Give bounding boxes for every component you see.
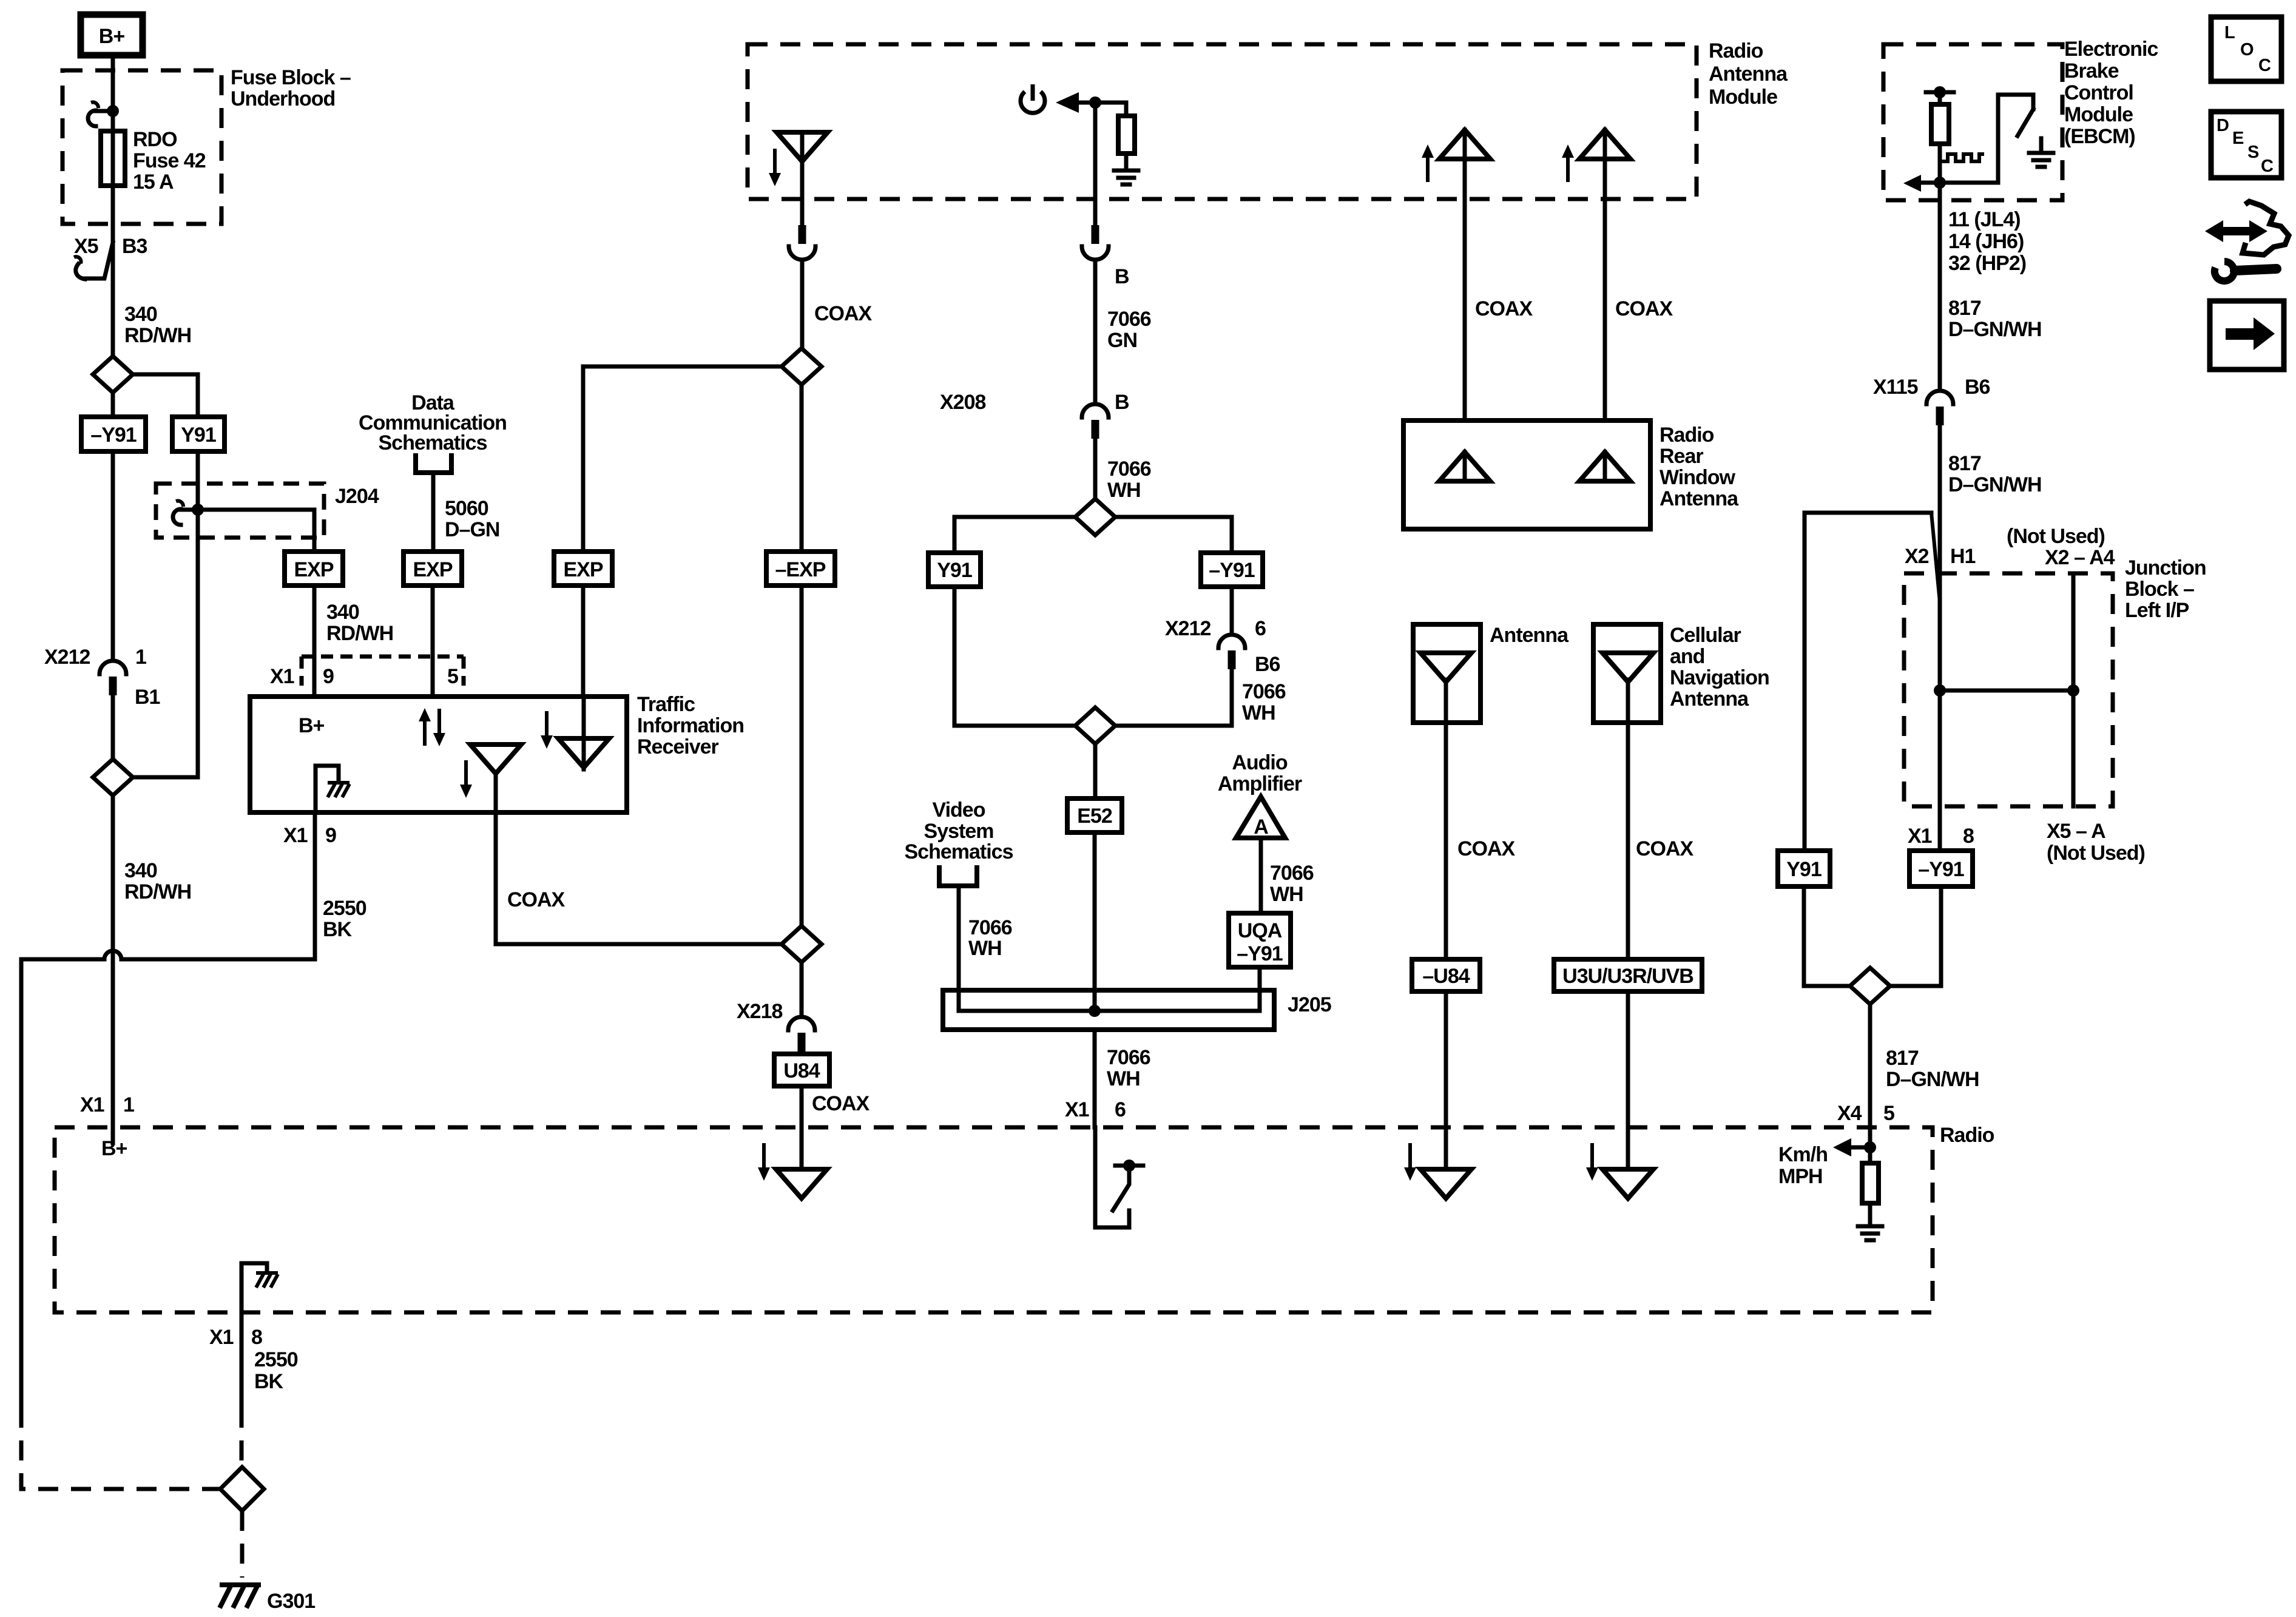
option box -Y91 (center): [1201, 553, 1263, 587]
svg-text:D–GN/WH: D–GN/WH: [1948, 473, 2042, 496]
label 340 RD/WH (lower): [124, 859, 191, 903]
dashed wire splice to G301: [240, 1511, 245, 1578]
svg-text:X5 – A: X5 – A: [2047, 820, 2105, 843]
svg-text:D–GN: D–GN: [445, 518, 499, 541]
svg-text:Fuse 42: Fuse 42: [133, 149, 206, 172]
svg-text:G301: G301: [267, 1590, 315, 1613]
svg-text:X1: X1: [209, 1326, 234, 1349]
wire Y91 down and left into diamond: [133, 451, 198, 777]
radio internal antenna (XM input): [1420, 1169, 1471, 1198]
wire U84 into radio: [800, 1086, 804, 1169]
svg-text:COAX: COAX: [507, 888, 566, 911]
antenna box (XM): [1413, 624, 1481, 723]
option box -Y91 (right): [1909, 851, 1973, 886]
J205 internal bus bar: [959, 1009, 1260, 1013]
wire coax to splice diamond: [496, 942, 782, 947]
signal arrow (main coax into radio): [758, 1143, 770, 1181]
label 2550 BK (ground lead): [254, 1348, 298, 1393]
connector X115 pin B6: [1926, 391, 1953, 425]
EBCM switch riser: [1998, 95, 2033, 183]
wire diamond down to -Y91: [111, 393, 115, 417]
ground (radio resistor): [1858, 1226, 1882, 1240]
svg-text:GN: GN: [1107, 329, 1137, 352]
wire amplifier to UQA: [1259, 838, 1263, 913]
svg-text:Navigation: Navigation: [1670, 666, 1769, 689]
svg-text:MPH: MPH: [1778, 1165, 1823, 1188]
svg-text:Amplifier: Amplifier: [1218, 772, 1302, 795]
coax horizontal from roof antenna diamond: [583, 365, 782, 369]
destination box -EXP: [766, 552, 835, 586]
junction dot on J205 bus: [1089, 1005, 1101, 1017]
svg-text:WH: WH: [1270, 883, 1303, 906]
roof antenna symbol: [777, 132, 828, 161]
radio antenna module dashed box: [748, 44, 1697, 199]
option box Y91 (center): [928, 553, 981, 587]
svg-text:X212: X212: [1165, 617, 1210, 640]
svg-text:B: B: [1115, 265, 1129, 288]
svg-text:B6: B6: [1255, 653, 1280, 676]
wire -Y91 down to X212: [111, 451, 115, 657]
svg-text:–Y91: –Y91: [90, 424, 136, 447]
label 2550 BK: [323, 897, 366, 941]
EBCM switch blade: [2017, 109, 2033, 136]
wire TIR pin X1-9 ground lead: [313, 812, 317, 959]
label Traffic Information Receiver: [637, 693, 744, 758]
in-line connector (roof coax): [789, 225, 815, 260]
wire dot to fuse: [111, 111, 115, 131]
off-page bracket (data communication): [416, 456, 451, 473]
svg-text:D–GN/WH: D–GN/WH: [1948, 318, 2042, 341]
svg-text:5060: 5060: [445, 497, 488, 520]
svg-text:X218: X218: [737, 1000, 782, 1023]
svg-text:D: D: [2217, 116, 2229, 135]
svg-text:B+: B+: [99, 25, 125, 48]
svg-text:EXP: EXP: [294, 558, 333, 581]
connector X218: [788, 1017, 815, 1052]
svg-text:J204: J204: [335, 485, 379, 508]
svg-text:Video: Video: [933, 798, 985, 822]
junction dot in J204: [192, 504, 204, 516]
svg-text:COAX: COAX: [1615, 297, 1673, 320]
svg-text:RD/WH: RD/WH: [124, 324, 191, 347]
svg-text:BK: BK: [323, 918, 353, 941]
svg-text:1: 1: [123, 1093, 134, 1116]
wire UQA to J205: [1258, 967, 1262, 1011]
wire EXP to TIR pin 5: [431, 586, 435, 697]
svg-text:5: 5: [447, 665, 458, 688]
junction dot (radio speed input): [1864, 1141, 1876, 1153]
svg-text:X208: X208: [940, 391, 985, 414]
icon service wrench with arrows: [2205, 201, 2289, 281]
svg-text:Radio: Radio: [1940, 1124, 1994, 1147]
svg-text:–U84: –U84: [1422, 965, 1470, 988]
signal arrow at roof antenna: [769, 149, 781, 186]
icon LOC: [2211, 17, 2281, 81]
junction block internal tee: [1934, 684, 2079, 697]
svg-text:A: A: [1254, 815, 1268, 839]
label 340 RD/WH (TIR feed): [326, 601, 393, 645]
connector X212 pin 6 / B6: [1218, 635, 1245, 669]
svg-text:Schematics: Schematics: [379, 431, 487, 454]
svg-text:340: 340: [124, 859, 157, 882]
J204 terminal hook: [173, 501, 198, 525]
label Cellular and Navigation Antenna: [1670, 624, 1769, 711]
wire diamond to radio X4-5: [1868, 1004, 1872, 1146]
svg-text:Brake: Brake: [2064, 59, 2119, 83]
label Fuse Block Underhood: [231, 66, 351, 110]
svg-text:B1: B1: [135, 686, 160, 709]
svg-text:U84: U84: [783, 1059, 820, 1082]
radio dashed box: [55, 1127, 1933, 1312]
svg-text:X1: X1: [270, 665, 294, 688]
svg-text:Junction: Junction: [2125, 556, 2206, 579]
power feed arrow: [1056, 92, 1126, 113]
svg-text:BK: BK: [254, 1370, 284, 1393]
signal arrow at expansion antenna: [541, 711, 553, 749]
wire Y91 down to join diamond: [954, 587, 1075, 726]
wire EXP to TIR pin 9: [312, 586, 317, 697]
svg-text:Audio: Audio: [1232, 751, 1288, 774]
signal arrow (rear antenna 1): [1422, 144, 1434, 182]
svg-text:Window: Window: [1660, 466, 1736, 489]
svg-text:X1: X1: [1908, 825, 1932, 848]
svg-text:15 A: 15 A: [133, 170, 174, 194]
svg-text:Module: Module: [1709, 86, 1777, 109]
svg-text:2550: 2550: [323, 897, 366, 920]
svg-text:9: 9: [325, 824, 336, 847]
wire junction block to -Y91: [1938, 690, 1942, 851]
splice diamond (817 join): [1850, 968, 1890, 1004]
svg-text:COAX: COAX: [814, 302, 873, 325]
svg-text:7066: 7066: [1107, 1046, 1150, 1069]
svg-text:U3U/U3R/UVB: U3U/U3R/UVB: [1562, 965, 1693, 988]
wire XM antenna coax: [1444, 723, 1448, 959]
svg-text:EXP: EXP: [413, 558, 452, 581]
svg-text:340: 340: [326, 601, 359, 624]
svg-text:X1: X1: [80, 1093, 104, 1116]
svg-text:J205: J205: [1288, 993, 1331, 1016]
radio internal antenna (nav input): [1602, 1169, 1653, 1198]
label Video System Schematics: [905, 798, 1013, 863]
resistor (module pull-up): [1118, 103, 1135, 169]
svg-text:X2 – A4: X2 – A4: [2045, 546, 2115, 569]
wire U3U into radio: [1626, 991, 1630, 1169]
label X5 - A (Not Used): [2047, 820, 2145, 865]
svg-text:7066: 7066: [1242, 680, 1286, 703]
svg-text:(EBCM): (EBCM): [2064, 125, 2135, 148]
svg-text:Km/h: Km/h: [1778, 1143, 1828, 1166]
svg-text:Underhood: Underhood: [231, 87, 335, 110]
option box -Y91 (left): [81, 417, 146, 451]
destination box EXP (coax tee): [554, 552, 612, 586]
wire EXP3 down into TIR: [581, 586, 586, 697]
option box Y91 (right): [1778, 851, 1830, 886]
wire Y91 to join diamond: [1804, 886, 1850, 986]
svg-text:(Not Used): (Not Used): [2007, 525, 2105, 548]
power symbol in module: [1021, 84, 1045, 113]
icon DESC: [2211, 112, 2281, 178]
TIR internal ground elbow: [316, 766, 339, 812]
svg-text:X4: X4: [1837, 1102, 1862, 1125]
junction dot on power feed: [1089, 96, 1101, 109]
icon forward arrow: [2210, 301, 2284, 370]
option box Y91 (left): [172, 417, 225, 451]
junction dot EBCM output: [1934, 177, 1946, 189]
svg-text:O: O: [2240, 40, 2254, 59]
label 7066 WH (antenna feed): [1107, 457, 1151, 502]
label 817 D-GN/WH (upper): [1948, 297, 2042, 341]
label 817 D-GN/WH (mid): [1948, 452, 2042, 496]
label 7066 WH (radio lead): [1107, 1046, 1150, 1090]
svg-text:D–GN/WH: D–GN/WH: [1886, 1068, 1979, 1091]
serial data arrows in TIR: [419, 708, 445, 746]
svg-text:Antenna: Antenna: [1660, 487, 1739, 510]
svg-text:8: 8: [251, 1326, 262, 1349]
TIR antenna (traffic): [470, 744, 521, 774]
svg-text:X5: X5: [74, 235, 98, 258]
svg-text:Cellular: Cellular: [1670, 624, 1741, 647]
svg-text:RDO: RDO: [133, 128, 177, 151]
wire 2550 BK horizontal run with hop: [21, 951, 315, 1408]
svg-text:and: and: [1670, 645, 1704, 668]
label Electronic Brake Control Module (EBCM): [2064, 38, 2158, 148]
option box -U84: [1412, 959, 1480, 991]
svg-text:Y91: Y91: [181, 424, 216, 447]
label Radio Rear Window Antenna: [1660, 424, 1739, 510]
svg-text:(Not Used): (Not Used): [2047, 842, 2145, 865]
svg-text:WH: WH: [1242, 701, 1275, 724]
label Junction Block - Left I/P: [2125, 556, 2206, 622]
wire J204 branch to EXP: [198, 510, 314, 552]
option box UQA -Y91: [1229, 913, 1291, 967]
svg-text:–Y91: –Y91: [1209, 559, 1254, 582]
connector X208 pin B: [1082, 404, 1109, 439]
svg-text:7066: 7066: [1270, 862, 1314, 885]
svg-text:9: 9: [323, 665, 334, 688]
signal arrow (nav into radio): [1586, 1143, 1598, 1181]
svg-text:S: S: [2247, 143, 2259, 162]
signal arrow at traffic antenna: [460, 760, 472, 798]
connector X5 B3 pass-through slash and hook: [74, 243, 113, 279]
wire diamond to E52: [1093, 744, 1098, 798]
option box U84: [774, 1054, 829, 1086]
svg-text:H1: H1: [1950, 545, 1976, 568]
rear window element 1: [1439, 452, 1490, 481]
svg-text:EXP: EXP: [563, 558, 603, 581]
destination box EXP (serial data): [403, 552, 462, 586]
connector X1 bracket at TIR (pins 9 and 5): [302, 657, 464, 686]
EBCM output arrow: [1903, 175, 1998, 192]
wire X208 to splice diamond: [1093, 439, 1098, 499]
svg-text:6: 6: [1115, 1098, 1126, 1121]
rear window element 2: [1579, 452, 1630, 481]
splice diamond (ground join): [220, 1467, 264, 1511]
wire to X208: [1093, 263, 1098, 400]
wire diamond to Y91: [954, 517, 1075, 553]
junction dot at fuse block terminal: [107, 105, 119, 117]
svg-text:Information: Information: [637, 714, 744, 737]
splice diamond (7066 WH split): [1075, 499, 1115, 535]
label 11 (JL4) 14 (JH6) 32 (HP2): [1948, 208, 2026, 275]
radio internal resistor: [1862, 1147, 1879, 1225]
wire B+ to fuse block: [111, 55, 115, 109]
svg-text:X1: X1: [283, 824, 308, 847]
svg-text:C: C: [2261, 157, 2274, 176]
label 817 D-GN/WH (radio lead): [1886, 1047, 1979, 1091]
EBCM square wave signal: [1942, 154, 1984, 161]
svg-text:Radio: Radio: [1660, 424, 1714, 447]
svg-text:7066: 7066: [1107, 457, 1151, 481]
radio internal ground elbow: [241, 1263, 267, 1312]
TIR chassis ground: [328, 783, 349, 797]
wire -EXP down to lower coax diamond: [800, 586, 804, 926]
J204 dashed connector box: [156, 484, 324, 538]
wire X212-6 to join diamond: [1115, 669, 1232, 726]
svg-text:Traffic: Traffic: [637, 693, 695, 716]
electronic brake control module dashed box: [1883, 44, 2062, 200]
EBCM switch ground stub: [2039, 138, 2044, 153]
ground (module resistor): [1114, 170, 1138, 184]
splice diamond (340 RD/WH split): [93, 356, 133, 393]
wire Y91 through J204 continues: [196, 510, 200, 538]
label (Not Used) X2 - A4: [2007, 525, 2115, 569]
wire J205 to radio X1-6: [1093, 1030, 1097, 1127]
wire 5060 D-GN to EXP: [431, 473, 436, 552]
wire X218 to U84: [800, 1052, 804, 1054]
svg-text:C: C: [2258, 56, 2271, 75]
svg-text:–EXP: –EXP: [775, 558, 826, 581]
splice diamond (lower coax): [782, 926, 822, 962]
destination box EXP (from J204): [285, 552, 343, 586]
svg-text:–Y91: –Y91: [1237, 942, 1282, 965]
svg-text:11 (JL4): 11 (JL4): [1948, 208, 2021, 231]
svg-text:5: 5: [1883, 1102, 1894, 1125]
in-line connector (module B): [1082, 225, 1109, 260]
wire video lead to J205: [957, 886, 961, 1011]
wire diamond to -Y91: [1115, 517, 1232, 553]
wire TIR coax down: [494, 772, 498, 944]
svg-text:Block –: Block –: [2125, 578, 2194, 601]
rear window antenna symbol 2 (in module): [1579, 130, 1630, 420]
label 5060 D-GN: [445, 497, 499, 541]
wire connector to COAX diamond: [800, 263, 805, 348]
radio rear window antenna box: [1403, 420, 1650, 529]
radio internal antenna symbol (main coax): [776, 1169, 827, 1198]
svg-text:System: System: [924, 820, 994, 843]
audio amplifier triangle A: [1236, 797, 1285, 839]
svg-text:X115: X115: [1873, 376, 1918, 399]
splice diamond (Y91/-Y91 join): [93, 759, 133, 795]
wire EXP3 riser to coax tee: [581, 366, 586, 552]
svg-text:Receiver: Receiver: [637, 735, 719, 758]
svg-text:14 (JH6): 14 (JH6): [1948, 230, 2024, 253]
cellular and navigation antenna box: [1593, 624, 1661, 723]
svg-text:RD/WH: RD/WH: [124, 880, 191, 903]
wire -U84 into radio: [1444, 991, 1448, 1169]
label 7066 WH (video lead): [968, 916, 1012, 960]
label 7066 GN: [1107, 308, 1151, 352]
EBCM resistor: [1931, 104, 1949, 183]
radio internal switch pivot dot and bar: [1115, 1160, 1143, 1172]
svg-text:X212: X212: [44, 646, 90, 669]
junction block left I/P dashed box: [1904, 573, 2113, 806]
label Radio Antenna Module: [1709, 39, 1788, 109]
wire radio ground lead: [240, 1312, 244, 1408]
wire fuse to X5/B3: [111, 186, 115, 364]
wire Y91 riser joining X2-H1: [1805, 513, 1940, 851]
svg-text:B+: B+: [299, 714, 325, 737]
svg-text:B6: B6: [1965, 376, 1990, 399]
svg-text:B+: B+: [101, 1137, 127, 1160]
svg-text:E: E: [2232, 129, 2244, 148]
splice diamond (antenna join): [1075, 707, 1115, 744]
svg-text:817: 817: [1886, 1047, 1919, 1070]
svg-text:Antenna: Antenna: [1709, 62, 1788, 86]
svg-text:2550: 2550: [254, 1348, 298, 1371]
wire module B output: [1093, 103, 1098, 226]
fuse block terminal hook: [88, 102, 113, 126]
svg-text:7066: 7066: [1107, 308, 1151, 331]
radio internal switch blade: [1113, 1172, 1129, 1210]
wire diamond down to -EXP: [800, 385, 804, 552]
svg-text:L: L: [2224, 23, 2235, 42]
svg-text:WH: WH: [1107, 479, 1141, 502]
svg-text:X2: X2: [1905, 545, 1929, 568]
svg-text:B: B: [1115, 391, 1129, 414]
svg-text:1: 1: [135, 646, 146, 669]
svg-text:COAX: COAX: [1457, 837, 1516, 860]
svg-text:WH: WH: [968, 937, 1002, 960]
traffic information receiver box: [250, 697, 627, 812]
svg-text:B3: B3: [122, 235, 147, 258]
svg-text:7066: 7066: [968, 916, 1012, 939]
TIR antenna (expansion): [558, 738, 609, 768]
svg-text:6: 6: [1255, 617, 1266, 640]
svg-text:WH: WH: [1107, 1067, 1140, 1090]
label Data Communication Schematics: [359, 391, 507, 454]
wire diamond to X218: [800, 962, 804, 1013]
fuse block underhood dashed box: [62, 70, 221, 224]
svg-text:817: 817: [1948, 297, 1981, 320]
wire cellular antenna coax: [1626, 723, 1630, 959]
signal arrow (rear antenna 2): [1562, 144, 1574, 182]
signal arrow (XM into radio): [1404, 1143, 1416, 1181]
wire E52 to J205: [1093, 832, 1097, 1011]
radio internal switch lower contact: [1095, 1127, 1129, 1227]
svg-text:–Y91: –Y91: [1918, 858, 1963, 881]
svg-text:817: 817: [1948, 452, 1981, 475]
option box E52: [1067, 798, 1122, 832]
svg-text:340: 340: [124, 303, 157, 326]
wire X212 to diamond: [111, 695, 115, 760]
svg-text:8: 8: [1963, 825, 1974, 848]
ground (EBCM switch): [2029, 153, 2053, 167]
svg-text:Schematics: Schematics: [905, 840, 1013, 863]
svg-text:Antenna: Antenna: [1670, 687, 1749, 711]
battery feed node B+ (top-left box): [81, 15, 143, 55]
svg-text:32 (HP2): 32 (HP2): [1948, 252, 2026, 275]
wire roof antenna to module connector: [800, 161, 805, 226]
svg-text:Radio: Radio: [1709, 39, 1763, 62]
dashed ground wire to splice: [240, 1408, 244, 1467]
connector X212 pin 1 / B1: [100, 661, 126, 695]
wire into expansion antenna: [582, 697, 586, 769]
junction block unused riser X2-A4: [2071, 573, 2076, 806]
option box U3U/U3R/UVB: [1554, 959, 1702, 991]
svg-text:Electronic: Electronic: [2064, 38, 2158, 61]
svg-text:Rear: Rear: [1660, 445, 1703, 468]
svg-text:Fuse Block –: Fuse Block –: [231, 66, 351, 89]
